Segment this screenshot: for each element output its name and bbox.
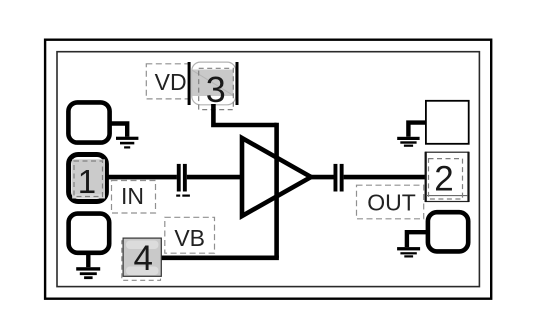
pin 2 box bbox=[425, 152, 470, 202]
svg-text:1: 1 bbox=[78, 163, 96, 200]
pin 3 pad (rounded thin, side bars) bbox=[188, 62, 239, 105]
package outline (outer border) bbox=[45, 40, 491, 299]
pin 4 box bbox=[123, 238, 161, 276]
ground G2 (bottom-left) bbox=[76, 252, 100, 279]
amplifier U1 triangle bbox=[242, 138, 311, 216]
pad bottom-right (thick rounded) bbox=[428, 212, 468, 251]
svg-text:OUT: OUT bbox=[367, 189, 416, 215]
svg-text:4: 4 bbox=[133, 239, 152, 278]
label VD dashed box bbox=[146, 64, 189, 99]
pin 1 selection dashed box bbox=[74, 161, 103, 197]
ground G1 (top-left) bbox=[109, 121, 138, 148]
wire vertical bus through amplifier bbox=[274, 123, 279, 258]
pin 3 selection dashed box bbox=[199, 68, 234, 109]
pin 1 pad (thick rounded) bbox=[69, 155, 107, 202]
die outline (inner border) bbox=[57, 52, 479, 287]
pin 4 selection dashed box bbox=[122, 241, 161, 280]
pin 2 selection dashed box bbox=[429, 159, 463, 199]
svg-text:IN: IN bbox=[121, 183, 144, 209]
label VB dashed box bbox=[165, 217, 215, 253]
label IN dashed box bbox=[112, 181, 156, 214]
svg-text:VD: VD bbox=[155, 69, 187, 95]
svg-text:VB: VB bbox=[174, 225, 205, 251]
wire C2 to pin 2 bbox=[344, 175, 425, 180]
pad bottom-left bbox=[69, 214, 110, 253]
wire input (pin1 to C1) bbox=[106, 175, 177, 180]
wire VB (pin4 to vertical bus) bbox=[160, 255, 279, 260]
wire VD (pin3 to vertical bus) bbox=[213, 104, 276, 125]
ground G4 (bottom-right) bbox=[397, 230, 427, 258]
capacitor C1 (input, plates) bbox=[176, 164, 190, 197]
svg-text:2: 2 bbox=[434, 160, 453, 199]
svg-text:3: 3 bbox=[206, 69, 226, 110]
label OUT dashed box bbox=[357, 185, 424, 219]
pin 1 selection fill bbox=[72, 159, 105, 198]
ground G3 (top-right) bbox=[397, 120, 426, 146]
pad top-left bbox=[68, 102, 109, 142]
capacitor C2 (output, plates) bbox=[334, 164, 344, 192]
pin 3 selection fill bbox=[192, 70, 233, 97]
pad top-right (square) bbox=[426, 101, 469, 144]
wire C1 to amplifier bbox=[187, 175, 242, 180]
wire output (amplifier to C2) bbox=[311, 175, 334, 180]
